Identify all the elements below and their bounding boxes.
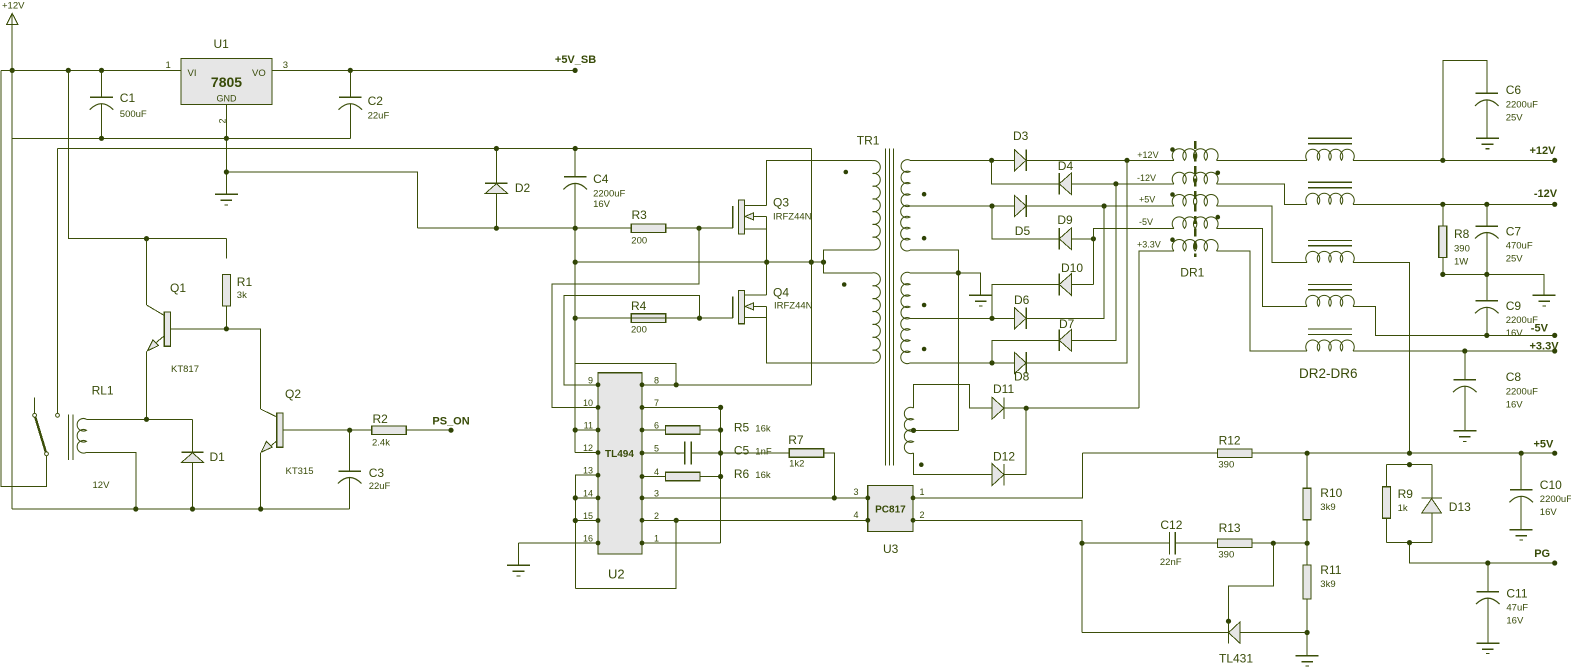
svg-text:D3: D3: [1013, 129, 1029, 143]
U2 pin 4 label: [654, 467, 659, 477]
U2 pin 2 dot: [640, 518, 645, 523]
R10 value 3k9: [1320, 502, 1335, 513]
wire pin16 ground lead: [519, 542, 599, 544]
U3 pin2 dot: [911, 518, 916, 523]
wire to PG line: [1410, 543, 1555, 563]
svg-text:2200uF: 2200uF: [1540, 494, 1571, 505]
U2 pin 11 label: [584, 421, 593, 431]
resistor R9: [1382, 487, 1390, 519]
resistor R12: [1218, 449, 1252, 458]
wire bottom rail left section: [12, 508, 350, 510]
TR1 aux winding S5: [904, 407, 913, 453]
junction dot pin2 at y171 rail: [224, 169, 229, 174]
Q2 label: [285, 387, 301, 401]
junction dot R6 right: [718, 474, 723, 479]
junction dot C11 top: [1485, 560, 1490, 565]
resistor R2: [372, 426, 451, 435]
svg-text:390: 390: [1218, 550, 1234, 561]
svg-text:-12V: -12V: [1137, 173, 1156, 183]
resistor R6: [642, 472, 721, 481]
U2 pin 14 dot: [596, 496, 601, 501]
svg-text:R6: R6: [734, 467, 750, 481]
D12 label: [993, 450, 1015, 464]
choke DR5: [1306, 284, 1355, 306]
wire D7 anode to -12V riser: [1071, 184, 1116, 340]
relay 12V label: [93, 480, 111, 491]
wire pin2 line to PC817 pin4: [642, 519, 868, 521]
wire S1 top lead: [910, 159, 1014, 161]
svg-text:4: 4: [654, 467, 659, 477]
svg-text:390: 390: [1218, 460, 1234, 471]
relay RL1 core: [69, 414, 73, 460]
wire x68 branch to Q1: [68, 70, 226, 238]
ground under C10: [1510, 530, 1533, 541]
DR1 dashed core: [1194, 141, 1197, 257]
svg-text:+12V: +12V: [1137, 150, 1158, 160]
svg-text:16V: 16V: [1540, 507, 1558, 518]
C4 value 2200uF: [593, 189, 625, 200]
D13 label: [1449, 500, 1471, 514]
transistor Q3 IRFZ44N: [733, 200, 767, 234]
svg-text:16k: 16k: [755, 470, 771, 481]
wire DR5 out to -5V rail: [1353, 306, 1555, 335]
transistor Q1 KT817: [147, 239, 227, 420]
svg-text:PC817: PC817: [875, 505, 906, 516]
wire S2 bottom lead: [910, 250, 958, 430]
svg-text:13: 13: [583, 466, 593, 476]
node -5V row label: [1139, 217, 1153, 227]
C8 value 2200uF: [1506, 387, 1538, 398]
node +12V terminal: [1530, 145, 1558, 163]
junction dot pin2 at y138 rail: [224, 136, 229, 141]
svg-text:10: 10: [583, 398, 593, 408]
junction dot R1 bottom / Q1 base: [224, 326, 229, 331]
U2 pin 14 label: [583, 488, 593, 498]
svg-text:22uF: 22uF: [369, 481, 391, 492]
capacitor C8: [1453, 351, 1477, 431]
U1 pin 3 label: [283, 60, 288, 71]
svg-text:16V: 16V: [1506, 400, 1524, 411]
svg-text:TL431: TL431: [1219, 652, 1253, 666]
svg-text:15: 15: [583, 511, 593, 521]
S1 phase dot: [922, 192, 927, 197]
wire pins11-12 over top to pin8: [575, 364, 676, 385]
opto U3 PC817 box: [868, 486, 913, 532]
wire bottom loop to pin2: [575, 520, 676, 588]
R3 value 200: [631, 236, 647, 247]
svg-text:R9: R9: [1398, 487, 1414, 501]
D6 label: [1014, 293, 1030, 307]
junction dot +12V/D8 riser: [1124, 158, 1129, 163]
node -12V row label: [1137, 173, 1156, 183]
svg-text:C11: C11: [1506, 587, 1527, 601]
svg-text:3k9: 3k9: [1320, 579, 1335, 590]
U2 pin 10 dot: [596, 405, 601, 410]
svg-text:200: 200: [631, 236, 647, 247]
svg-text:+3.3V: +3.3V: [1530, 341, 1560, 353]
junction dot Q1 collector: [144, 236, 149, 241]
wire Q3 gate net to TL494 pin10: [552, 228, 699, 407]
U2 pin 8 dot: [640, 382, 645, 387]
U2 pin 3 dot: [640, 496, 645, 501]
relay coil bottom lead: [87, 452, 136, 509]
C3 label: [369, 466, 385, 480]
junction dot R8 top: [1440, 202, 1445, 207]
svg-text:1: 1: [166, 60, 171, 71]
diode D11: [992, 397, 1004, 419]
svg-text:+3.3V: +3.3V: [1137, 240, 1161, 250]
TR1 secondary winding S1: [901, 160, 910, 207]
R8 value 390: [1454, 244, 1470, 255]
resistor R10: [1303, 453, 1311, 543]
junction dot R4 right / Q4 gate: [697, 316, 702, 321]
wire -12V row jog to DR3: [1216, 184, 1307, 205]
svg-text:8: 8: [654, 375, 659, 385]
wire D6 cathode to +5V riser: [1026, 206, 1104, 318]
U3 pin 2 label: [920, 510, 925, 520]
ground right of C7: [1533, 295, 1556, 306]
TR1 secondary winding S4: [901, 318, 910, 364]
R9 value 1k: [1398, 503, 1408, 514]
svg-text:2200uF: 2200uF: [593, 189, 625, 200]
C10 value 16V: [1540, 507, 1558, 518]
wire D4 anode to -12V row: [1071, 183, 1174, 185]
DR1 phase dot row4: [1216, 215, 1221, 220]
ground at secondary center tap: [969, 295, 992, 306]
U3 pin 1 label: [920, 487, 925, 497]
svg-text:IRFZ44N: IRFZ44N: [774, 301, 813, 312]
TR1 secondary winding S2: [901, 205, 910, 251]
junction dot D11/D12 out: [1024, 406, 1029, 411]
DR2-DR6 label: [1299, 366, 1358, 381]
R13 label: [1219, 521, 1241, 535]
TL431 label: [1219, 652, 1253, 666]
Q4 type IRFZ44N: [774, 301, 813, 312]
C2 value 22uF: [368, 111, 390, 122]
svg-text:200: 200: [631, 325, 647, 336]
D4 label: [1058, 159, 1074, 173]
R1 label: [237, 275, 253, 289]
diode D8: [1014, 352, 1026, 374]
junction dot C5 right: [718, 450, 723, 455]
wire +12V row to DR2: [1216, 159, 1307, 161]
svg-text:D8: D8: [1014, 370, 1030, 384]
capacitor C11: [1476, 563, 1500, 643]
wire pin7 lead: [642, 406, 721, 408]
C4 value 16V: [593, 199, 611, 210]
regulator U1 7805 box: [181, 59, 272, 105]
resistor R8: [1439, 204, 1447, 274]
R1 value 3k: [237, 290, 247, 301]
U2 pin 13 label: [583, 466, 593, 476]
wire x12 vertical: [11, 70, 13, 509]
C10 value 2200uF: [1540, 494, 1571, 505]
svg-text:16k: 16k: [755, 424, 771, 435]
wire TL431 cathode line: [1082, 632, 1229, 634]
R11 value 3k9: [1320, 579, 1335, 590]
svg-text:25V: 25V: [1506, 254, 1524, 265]
R5 label: [734, 421, 771, 435]
TR1 primary winding P1: [873, 161, 881, 250]
U3 pin3 dot: [865, 496, 870, 501]
wire Q1 base to Q2 collector: [226, 329, 260, 409]
node +5V row label: [1139, 195, 1155, 205]
svg-text:-5V: -5V: [1139, 217, 1153, 227]
U1 text GND: [217, 94, 238, 104]
svg-text:C9: C9: [1506, 299, 1522, 313]
diode D10: [1059, 274, 1071, 296]
node +3.3V terminal: [1530, 341, 1560, 354]
svg-text:TR1: TR1: [857, 134, 880, 148]
svg-text:25V: 25V: [1506, 113, 1524, 124]
junction dot Q2 base / C3: [347, 428, 352, 433]
junction dot C4 top: [573, 146, 578, 151]
wire Q4 drain up: [766, 262, 768, 295]
diode D6: [1014, 308, 1026, 330]
ground at TL494 pin16: [507, 543, 530, 576]
svg-text:16V: 16V: [1506, 328, 1524, 339]
R8 value 1W: [1454, 257, 1468, 268]
svg-text:12: 12: [583, 443, 593, 453]
svg-text:R3: R3: [632, 208, 648, 222]
wire D13 bottom: [1431, 513, 1433, 543]
Q3 label: [773, 196, 789, 210]
junction dot R9D13 bottom: [1407, 540, 1412, 545]
svg-text:C2: C2: [368, 94, 384, 108]
junction dot x575 pin11: [573, 427, 578, 432]
node PG terminal: [1534, 548, 1557, 566]
resistor R3: [631, 224, 665, 233]
capacitor C4: [563, 149, 587, 229]
S3 phase dot: [922, 303, 927, 308]
svg-text:500uF: 500uF: [120, 109, 147, 120]
svg-text:GND: GND: [217, 94, 238, 104]
wire aux center tap: [914, 429, 959, 431]
svg-text:D13: D13: [1449, 500, 1471, 514]
svg-text:2.4k: 2.4k: [372, 438, 390, 449]
U2 pin 5 dot: [640, 451, 645, 456]
svg-text:+12V: +12V: [1530, 145, 1557, 157]
D8 label: [1014, 370, 1030, 384]
svg-text:-12V: -12V: [1534, 188, 1558, 200]
svg-text:3: 3: [283, 60, 288, 71]
diode D1: [181, 419, 203, 509]
node -12V terminal: [1534, 188, 1558, 207]
C3 value 22uF: [369, 481, 391, 492]
svg-text:C1: C1: [120, 91, 136, 105]
svg-text:C7: C7: [1506, 225, 1522, 239]
C7 value 25V: [1506, 254, 1524, 265]
junction dot y262 x811: [809, 260, 814, 265]
ground under U1: [215, 194, 238, 205]
wire Q4 gate net to TL494 pin9: [564, 295, 700, 385]
relay RL1 label: [92, 384, 114, 398]
junction dot -12V/D7 riser: [1113, 181, 1118, 186]
switch contact (relay): [33, 398, 60, 456]
svg-text:U2: U2: [608, 567, 625, 582]
junction dot C6 on +12V: [1440, 158, 1445, 163]
svg-text:7: 7: [654, 398, 659, 408]
D7 label: [1059, 317, 1075, 331]
junction dot D1 bottom: [190, 506, 195, 511]
wire D10 cathode link: [992, 285, 1059, 319]
svg-text:22nF: 22nF: [1160, 557, 1182, 568]
svg-text:R5: R5: [734, 421, 750, 435]
C6 value 25V: [1506, 113, 1524, 124]
svg-text:Q1: Q1: [170, 281, 186, 295]
svg-text:D7: D7: [1059, 317, 1075, 331]
svg-text:12V: 12V: [93, 480, 111, 491]
capacitor C2: [339, 70, 363, 138]
ground under C6: [1476, 138, 1499, 149]
junction dot R7 to pin3 line: [832, 495, 837, 500]
R13 value 390: [1218, 550, 1234, 561]
diode D4: [1059, 173, 1071, 195]
svg-text:C8: C8: [1506, 370, 1522, 384]
svg-text:R8: R8: [1454, 227, 1470, 241]
svg-text:U3: U3: [883, 542, 899, 556]
svg-text:R10: R10: [1320, 486, 1342, 500]
U2 pin 15 label: [583, 511, 593, 521]
U1 text VI: [188, 68, 197, 79]
svg-text:9: 9: [588, 375, 593, 385]
TR1 secondary winding S3: [901, 272, 910, 319]
DR1 label: [1180, 266, 1204, 280]
svg-text:D6: D6: [1014, 293, 1030, 307]
wire pin8 to x811: [642, 384, 811, 386]
U3 pin 3 label: [853, 487, 858, 497]
wire aux bottom lead: [914, 453, 993, 475]
svg-text:1: 1: [654, 534, 659, 544]
C1 value 500uF: [120, 109, 147, 120]
D3 label: [1013, 129, 1029, 143]
S5 phase dot: [919, 462, 924, 467]
svg-text:7805: 7805: [211, 74, 242, 90]
U2 pin 13 dot: [596, 473, 601, 478]
relay RL1 coil: [77, 418, 86, 453]
node +5V terminal: [1534, 439, 1558, 456]
svg-text:Q4: Q4: [773, 286, 789, 300]
junction dot R10 top: [1305, 451, 1310, 456]
svg-text:1k2: 1k2: [789, 459, 804, 470]
DR1 winding +3.3V: [1172, 239, 1218, 251]
D11 label: [993, 382, 1014, 396]
svg-text:16: 16: [583, 534, 593, 544]
C1 label: [120, 91, 136, 105]
R4 label: [631, 299, 647, 313]
C11 label: [1506, 587, 1527, 601]
svg-text:C4: C4: [593, 172, 609, 186]
junction dot D2 bottom: [494, 226, 499, 231]
U2 pin 10 label: [583, 398, 593, 408]
wire -5V row jog to DR5: [1216, 228, 1307, 306]
choke DR4: [1306, 240, 1355, 262]
wire U1 pin3 to +5V_SB: [272, 69, 575, 71]
TR1 primary winding P2: [873, 273, 881, 363]
choke DR2: [1306, 138, 1355, 160]
svg-text:22uF: 22uF: [368, 111, 390, 122]
wire TL431 ref riser: [1229, 543, 1274, 621]
wire D12 cathode link: [1004, 408, 1026, 474]
svg-text:C3: C3: [369, 466, 385, 480]
junction dot at C2 top: [348, 68, 353, 73]
R7 value 1k2: [789, 459, 804, 470]
junction dot -5V node: [1091, 236, 1096, 241]
R2 value 2.4k: [372, 438, 390, 449]
junction dot R10/R11: [1305, 541, 1310, 546]
U1 text VO: [252, 68, 266, 79]
R12 label: [1219, 434, 1241, 448]
capacitor C6 top loop: [1443, 61, 1487, 161]
R4 value 200: [631, 325, 647, 336]
diode D13: [1421, 498, 1441, 513]
svg-text:R11: R11: [1320, 563, 1341, 577]
C9 value 2200uF: [1506, 315, 1538, 326]
svg-text:D12: D12: [993, 450, 1015, 464]
node PS_ON terminal: [432, 416, 469, 433]
svg-text:C6: C6: [1506, 83, 1522, 97]
svg-text:Q2: Q2: [285, 387, 301, 401]
svg-text:D9: D9: [1057, 213, 1073, 227]
wire D7 cathode link: [992, 340, 1059, 363]
junction dot Q2 emitter bottom: [258, 506, 263, 511]
C8 label: [1506, 370, 1522, 384]
svg-text:2: 2: [920, 510, 925, 520]
C10 label: [1540, 478, 1562, 492]
wire left rail down from +12V: [1, 70, 47, 486]
diode D9: [1059, 228, 1071, 250]
DR1 winding -5V: [1172, 217, 1218, 229]
svg-text:KT315: KT315: [286, 466, 314, 477]
C5 label: [734, 444, 772, 458]
junction dot C9 bottom -5V: [1484, 333, 1489, 338]
wire +5V row jog to DR4: [1216, 206, 1307, 262]
wire D11 out: [1004, 407, 1139, 409]
svg-text:+5V: +5V: [1534, 439, 1555, 451]
wire DR3 out -12V: [1353, 203, 1555, 205]
svg-text:2: 2: [218, 118, 228, 123]
svg-text:R4: R4: [631, 299, 647, 313]
wire y138 rail: [12, 137, 350, 139]
ground under R11: [1296, 633, 1319, 667]
U2 pin 1 dot: [640, 541, 645, 546]
svg-text:RL1: RL1: [92, 384, 114, 398]
svg-text:3k: 3k: [237, 290, 247, 301]
svg-text:R13: R13: [1219, 521, 1241, 535]
U2 pin 16 label: [583, 534, 593, 544]
junction dot half-bridge node: [764, 260, 769, 265]
U2 pin 7 label: [654, 398, 659, 408]
capacitor C6: [1475, 93, 1499, 138]
aux center tap dot: [911, 428, 916, 433]
wire D3 to +12V row: [1026, 159, 1174, 161]
junction dot on +12V rail at arrow: [10, 68, 15, 73]
wire R9 bottom: [1385, 518, 1387, 542]
wire S3 top lead / ground: [910, 273, 981, 296]
U2 pin 7 dot: [640, 405, 645, 410]
wire C12/R13 rail: [1082, 542, 1307, 544]
svg-text:47uF: 47uF: [1506, 603, 1528, 614]
transistor Q2 KT315: [261, 409, 372, 509]
svg-text:2: 2: [654, 511, 659, 521]
P1 phase dot: [844, 170, 849, 175]
C9 value 16V: [1506, 328, 1524, 339]
ground under C8: [1453, 431, 1476, 442]
wire D10 anode: [1071, 284, 1093, 286]
C8 value 16V: [1506, 400, 1524, 411]
wire Q3 drain to TR1: [767, 161, 873, 206]
svg-text:Q3: Q3: [773, 196, 789, 210]
